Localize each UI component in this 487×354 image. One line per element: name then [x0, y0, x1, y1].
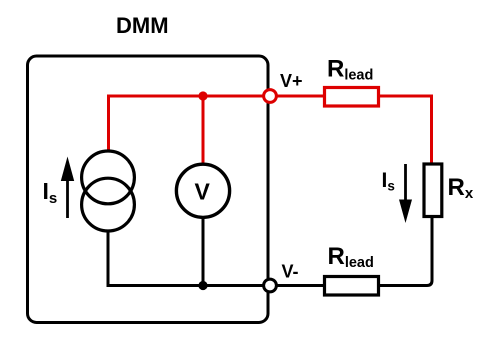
wire red top rail — [109, 96, 432, 163]
node junction black (bottom) — [198, 281, 207, 290]
svg-text:V: V — [195, 179, 211, 205]
arrow I_s direction (up) — [61, 157, 74, 219]
svg-text:V-: V- — [282, 262, 299, 282]
resistor R_x — [424, 164, 442, 217]
svg-text:Rlead: Rlead — [327, 56, 373, 84]
wire black voltmeter bottom — [202, 218, 205, 286]
arrow I_s through R_x (down) — [399, 164, 412, 223]
wire black bottom rail — [108, 231, 271, 286]
wire red voltmeter branch — [202, 96, 205, 164]
svg-text:Rlead: Rlead — [328, 243, 374, 271]
node junction red (top) — [198, 91, 207, 100]
svg-text:Rx: Rx — [448, 174, 474, 202]
voltmeter V (U-meter) — [176, 164, 229, 217]
current source I_s (overlapping circles) — [82, 151, 135, 231]
terminal V- — [264, 279, 277, 292]
resistor R_lead (top) — [325, 88, 379, 107]
svg-text:V+: V+ — [280, 71, 303, 91]
DMM enclosure box — [28, 56, 269, 323]
resistor R_lead (bottom) — [325, 277, 379, 296]
terminal V+ — [264, 90, 277, 103]
wire black bottom right segment — [271, 217, 432, 286]
svg-text:Is: Is — [43, 178, 58, 207]
svg-text:DMM: DMM — [116, 13, 169, 38]
svg-text:Is: Is — [382, 169, 395, 194]
